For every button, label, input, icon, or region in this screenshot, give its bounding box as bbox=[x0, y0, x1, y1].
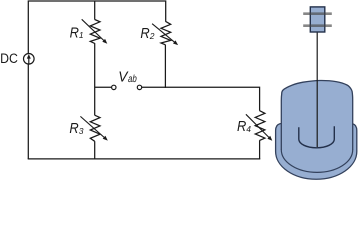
node a terminal bbox=[112, 85, 116, 89]
stirrer shaft bbox=[316, 32, 318, 148]
vessel body outline bbox=[281, 80, 352, 150]
resistor R2 arrow bbox=[152, 24, 176, 43]
svg-text:ab: ab bbox=[128, 73, 137, 84]
vessel body fill bbox=[281, 80, 352, 150]
wire R1 to R3 bbox=[94, 43, 96, 115]
vessel inner rim arc bbox=[281, 150, 352, 173]
svg-text:R2: R2 bbox=[140, 26, 154, 42]
svg-text:R1: R1 bbox=[70, 25, 84, 41]
node b terminal bbox=[137, 85, 141, 89]
wire node b to R4 bbox=[142, 87, 260, 110]
motor band bottom bbox=[303, 24, 332, 27]
DC source U0 bbox=[24, 54, 35, 65]
resistor R1 arrow bbox=[82, 19, 105, 41]
wire R2 to node b bbox=[164, 45, 166, 88]
DC source arrow bbox=[28, 57, 30, 64]
svg-text:R4: R4 bbox=[237, 119, 251, 135]
wire R3 bottom bbox=[94, 141, 96, 159]
resistor R1 bbox=[90, 20, 100, 44]
resistor R2 bbox=[161, 21, 171, 45]
wire left bottom bbox=[27, 64, 29, 158]
impeller U bbox=[299, 126, 335, 148]
svg-text:DC: DC bbox=[0, 51, 18, 67]
resistor R4 arrow bbox=[246, 114, 270, 138]
wire R4 bottom bbox=[259, 140, 261, 159]
svg-text:R3: R3 bbox=[69, 121, 83, 137]
wire bottom bbox=[28, 158, 261, 160]
resistor R4 bbox=[255, 111, 265, 141]
motor band top bbox=[303, 12, 332, 15]
resistor R3 bbox=[90, 115, 100, 141]
motor bbox=[310, 7, 325, 32]
wire node a stub bbox=[95, 86, 112, 88]
wire R1 branch top bbox=[94, 1, 96, 20]
wire top bbox=[28, 1, 165, 54]
vessel bowl (outer rim) bbox=[276, 123, 357, 179]
resistor R3 arrow bbox=[80, 116, 105, 138]
